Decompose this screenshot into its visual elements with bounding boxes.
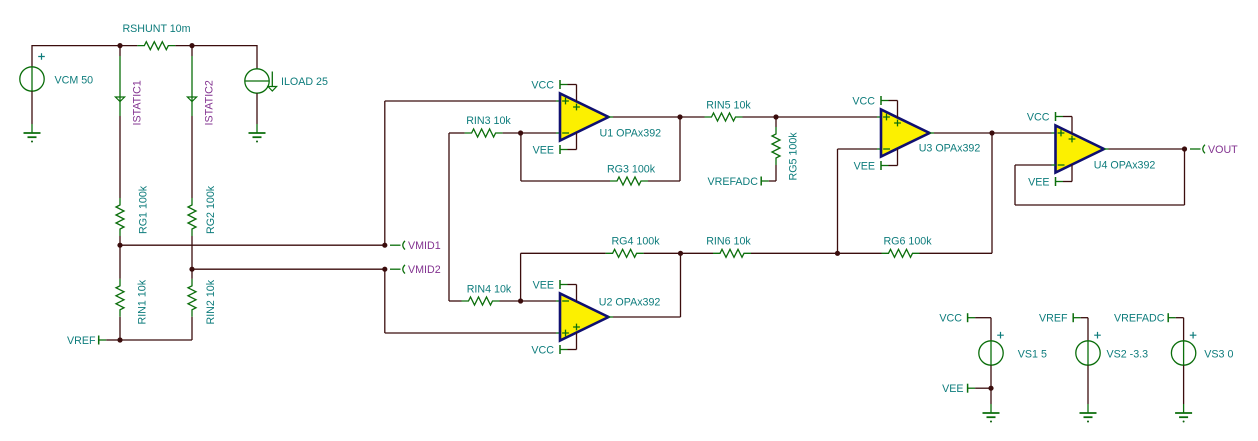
wire VS2 bottom vert (1087, 365, 1089, 404)
svg-text:U2 OPAx392: U2 OPAx392 (599, 296, 661, 308)
wire U3 output stub (930, 132, 935, 134)
svg-text:VEE: VEE (533, 144, 554, 156)
wire to ILOAD (192, 45, 257, 47)
wire VCM to ground (31, 91, 33, 124)
wire U2 minus pin stub (556, 300, 560, 302)
wire U2 out up (680, 253, 682, 317)
wire U4 feedback to minus (1015, 164, 1052, 166)
resistor RIN6 (706, 236, 751, 258)
resistor RG4 (606, 236, 661, 258)
op-amp U4 (1056, 126, 1156, 173)
wire RIN3-RIN4 vertical (448, 133, 450, 301)
resistor RIN1 (116, 279, 149, 325)
wire VS3 top vert (1183, 318, 1185, 341)
wire U4 out (1109, 148, 1185, 150)
wire VS1 top vert (990, 318, 992, 341)
wire VS2 top horiz (1081, 317, 1088, 319)
wire U1 out to RIN5 (680, 116, 705, 118)
wire ISTATIC2 to RG2 (191, 116, 193, 198)
svg-text:VREF: VREF (1039, 313, 1068, 325)
wire VMID1 stub (390, 244, 401, 246)
wire VS3 bottom vert (1183, 365, 1185, 404)
VEE supply pin of U4 (1071, 165, 1073, 182)
node VMID1 (382, 243, 387, 248)
wire VCC pin horiz of U2 (568, 349, 577, 351)
VCC tick of U1 (531, 79, 567, 91)
svg-text:VCC: VCC (852, 95, 875, 107)
wire RSHUNT node to ISTATIC2 (191, 46, 193, 56)
wire RG1 to VMID1 node (119, 236, 121, 245)
wire U2 output stub (609, 316, 614, 318)
node RSHUNT left junction (117, 43, 122, 48)
wire VOUT stub (1190, 148, 1201, 150)
svg-text:RIN5 10k: RIN5 10k (706, 99, 751, 111)
resistor RIN4 (462, 284, 512, 306)
VCC terminal of VS1 (939, 313, 975, 325)
svg-text:RIN6 10k: RIN6 10k (706, 236, 751, 248)
svg-text:RSHUNT 10m: RSHUNT 10m (122, 23, 190, 35)
svg-text:VMID2: VMID2 (408, 264, 441, 276)
resistor RIN2 (188, 279, 217, 325)
svg-text:RIN1 10k: RIN1 10k (137, 279, 149, 324)
wire VMID1 up (384, 101, 386, 245)
node VMID2 (382, 267, 387, 272)
wire to U3 plus (776, 116, 877, 118)
svg-text:ISTATIC2: ISTATIC2 (204, 80, 216, 125)
wire U4 feedback bottom (1015, 204, 1185, 206)
wire RG3 left (521, 180, 610, 182)
wire to U1 minus (521, 132, 556, 134)
svg-text:VEE: VEE (533, 279, 554, 291)
wire U1 plus pin stub (556, 100, 560, 102)
wire ILOAD to ground (256, 93, 258, 124)
wire to U3 minus (838, 148, 878, 150)
node U2 minus junction (518, 298, 523, 303)
voltage source VS2 (1076, 332, 1148, 365)
svg-text:ILOAD 25: ILOAD 25 (281, 76, 328, 88)
VEE tick of U3 (854, 160, 889, 172)
wire to U2 minus (521, 300, 556, 302)
wire VS1 bottom vert (990, 365, 992, 404)
op-amp U2 (560, 294, 660, 341)
wire U4 output stub (1104, 148, 1109, 150)
wire ILOAD vertical upper (256, 45, 258, 69)
svg-text:VEE: VEE (942, 383, 963, 395)
wire U1 out (613, 116, 680, 118)
resistor RG6 (882, 236, 933, 258)
wire VMID2 stub (390, 268, 401, 270)
svg-text:VOUT: VOUT (1208, 144, 1238, 156)
svg-text:RG1 100k: RG1 100k (138, 185, 150, 234)
wire VREF tick to RIN1 (106, 339, 120, 341)
current arrow ISTATIC1 (115, 56, 143, 126)
wire RG5 top lead (775, 117, 777, 127)
svg-text:VCC: VCC (531, 79, 554, 91)
svg-text:VREFADC: VREFADC (1114, 313, 1165, 325)
wire U3 out (934, 132, 992, 134)
wire RG2 to VMID2 node (191, 236, 193, 269)
wire VS3 top horiz (1176, 317, 1184, 319)
VEE supply pin of U3 (897, 149, 899, 166)
svg-text:VS3 0: VS3 0 (1204, 348, 1233, 360)
wire VEE pin horiz of U4 (1063, 181, 1072, 183)
VREFADC terminal of VS3 (1114, 313, 1176, 325)
wire RIN3 right lead (503, 132, 521, 134)
svg-text:VCC: VCC (1027, 111, 1050, 123)
VEE tick of U2 (533, 279, 568, 291)
node RG2-RIN2 junction (189, 267, 194, 272)
wire VMID2 down (384, 269, 386, 333)
wire U4 minus pin stub (1052, 164, 1056, 166)
wire VMID2 to U2 plus (385, 332, 556, 334)
wire RG6 up to U3 out (991, 133, 993, 253)
wire VREF rail (120, 339, 192, 341)
node tag VMID1 (403, 240, 441, 252)
svg-text:VMID1: VMID1 (408, 240, 441, 252)
wire U1 minus node down (520, 133, 522, 181)
wire RG5 to VREFADC (769, 180, 776, 182)
wire RIN6 right lead (751, 252, 838, 254)
node U1 minus junction (518, 130, 523, 135)
wire RG4 left (521, 252, 606, 254)
VCC supply pin of U3 (897, 101, 899, 118)
wire U3 plus pin stub (877, 116, 881, 118)
wire RIN1 top lead (119, 245, 121, 279)
svg-text:U3 OPAx392: U3 OPAx392 (919, 142, 981, 154)
wire RIN2 bottom lead (191, 317, 193, 340)
VREF terminal of VS2 (1039, 313, 1081, 325)
VEE supply pin of U1 (576, 133, 578, 150)
wire U3 minus vertical (837, 149, 839, 253)
wire RG3 right (648, 180, 680, 182)
node RIN6-RG6 junction (835, 251, 840, 256)
wire RIN5 right lead (743, 116, 777, 118)
svg-text:VS2 -3.3: VS2 -3.3 (1107, 348, 1149, 360)
VCC supply pin of U1 (576, 85, 578, 102)
svg-text:RG3 100k: RG3 100k (607, 164, 656, 176)
svg-text:VEE: VEE (1028, 176, 1049, 188)
wire VCM top to RSHUNT node (32, 45, 120, 47)
VCC tick of U3 (852, 95, 888, 107)
ground below VCM (24, 124, 41, 143)
wire VCC pin horiz of U4 (1063, 116, 1072, 118)
ground below ILOAD (249, 124, 266, 143)
wire RSHUNT left lead (120, 45, 137, 47)
wire VCC pin horiz of U1 (568, 84, 577, 86)
VCC supply pin of U4 (1071, 117, 1073, 134)
svg-text:U1 OPAx392: U1 OPAx392 (600, 128, 662, 140)
VCC tick of U2 (531, 344, 567, 356)
op-amp U1 (560, 94, 661, 141)
svg-text:VREF: VREF (67, 335, 96, 347)
svg-text:VCC: VCC (531, 344, 554, 356)
ground below VS2 (1080, 404, 1097, 423)
VEE terminal of VS1 (942, 383, 975, 395)
wire RIN4 left lead (449, 300, 462, 302)
wire RSHUNT right lead (175, 45, 192, 47)
wire VEE pin horiz of U2 (568, 284, 577, 286)
wire VCM vertical upper (31, 45, 33, 67)
node U1 feedback junction (677, 114, 682, 119)
VCC supply pin of U2 (576, 333, 578, 350)
wire U1 output stub (609, 116, 614, 118)
wire VEE pin horiz of U3 (889, 165, 898, 167)
voltage source VS1 (979, 332, 1047, 365)
svg-text:VS1 5: VS1 5 (1018, 348, 1047, 360)
VEE tick of U4 (1028, 176, 1063, 188)
wire VMID1 to U1 plus (385, 100, 556, 102)
wire RIN2 top lead (191, 269, 193, 279)
wire U2 plus pin stub (556, 332, 560, 334)
node VREF junction (117, 337, 122, 342)
op-amp U3 (881, 110, 980, 157)
wire RIN4 right lead (500, 300, 521, 302)
wire U4 feedback up (1014, 165, 1016, 205)
node U3 out junction (989, 130, 994, 135)
VEE tick of U1 (533, 144, 568, 156)
svg-text:RG2 100k: RG2 100k (205, 185, 217, 234)
wire U4 feedback down (1184, 149, 1186, 205)
resistor RG1 (116, 185, 150, 236)
wire RG6 right (920, 252, 993, 254)
svg-text:VREFADC: VREFADC (708, 176, 759, 188)
wire RIN1 bottom lead (119, 317, 121, 340)
wire VCC pin horiz of U3 (889, 100, 898, 102)
node VOUT (1182, 146, 1187, 151)
svg-text:U4 OPAx392: U4 OPAx392 (1094, 160, 1156, 172)
resistor RG2 (188, 185, 217, 236)
wire U1 minus pin stub (556, 132, 560, 134)
wire VS2 top vert (1087, 318, 1089, 341)
node RSHUNT right junction (189, 43, 194, 48)
node RG4-RIN6 junction (678, 251, 683, 256)
voltage source VS3 (1171, 332, 1233, 365)
node RG1-RIN1 junction (117, 243, 122, 248)
node VEE junction (988, 386, 993, 391)
node RIN5-RG5 junction (773, 114, 778, 119)
ground below VS1 (983, 404, 1000, 423)
current arrow ISTATIC2 (187, 56, 215, 126)
svg-text:VCM 50: VCM 50 (55, 75, 94, 87)
wire RG5 bottom lead (775, 165, 777, 181)
wire RG4 node to RIN6 (681, 252, 714, 254)
svg-text:ISTATIC1: ISTATIC1 (132, 80, 144, 125)
svg-text:RG5 100k: RG5 100k (788, 132, 800, 181)
wire RSHUNT node to ISTATIC1 (119, 46, 121, 56)
VCC tick of U4 (1027, 111, 1063, 123)
VREF terminal left (67, 335, 106, 347)
resistor RG5 (772, 127, 800, 181)
VREFADC terminal (708, 176, 769, 188)
wire RG4 right (644, 252, 681, 254)
current source ILOAD (245, 69, 328, 93)
wire VEE pin horiz of U1 (568, 149, 577, 151)
wire RG3 up to U1 out (679, 117, 681, 181)
wire U3 out to U4 plus (992, 132, 1052, 134)
ground below VS3 (1175, 404, 1192, 423)
svg-text:RIN3 10k: RIN3 10k (466, 115, 511, 127)
svg-text:VEE: VEE (854, 160, 875, 172)
wire RIN3 left lead (449, 132, 465, 134)
svg-text:VCC: VCC (939, 313, 962, 325)
wire U2 minus node up (520, 253, 522, 301)
svg-text:RIN2 10k: RIN2 10k (205, 279, 217, 324)
node tag VOUT (1203, 144, 1238, 156)
wire VEE tick to VS1 (975, 387, 991, 389)
resistor RIN3 (465, 115, 512, 137)
VEE supply pin of U2 (576, 285, 578, 302)
resistor RSHUNT (122, 23, 190, 50)
wire U4 plus pin stub (1052, 132, 1056, 134)
wire ISTATIC1 to RG1 (119, 116, 121, 198)
wire U3 minus pin stub (877, 148, 881, 150)
voltage source VCM (20, 53, 93, 91)
wire VS1 top horiz (975, 317, 991, 319)
svg-text:RG4 100k: RG4 100k (611, 236, 660, 248)
node tag VMID2 (403, 264, 441, 276)
wire U2 out (613, 316, 681, 318)
svg-text:RIN4 10k: RIN4 10k (467, 284, 512, 296)
resistor RG3 (607, 164, 656, 186)
resistor RIN5 (705, 99, 752, 121)
wire RG6 left (838, 252, 882, 254)
wire VMID1 row (120, 244, 385, 246)
svg-text:RG6 100k: RG6 100k (883, 236, 932, 248)
wire VMID2 row (192, 268, 385, 270)
